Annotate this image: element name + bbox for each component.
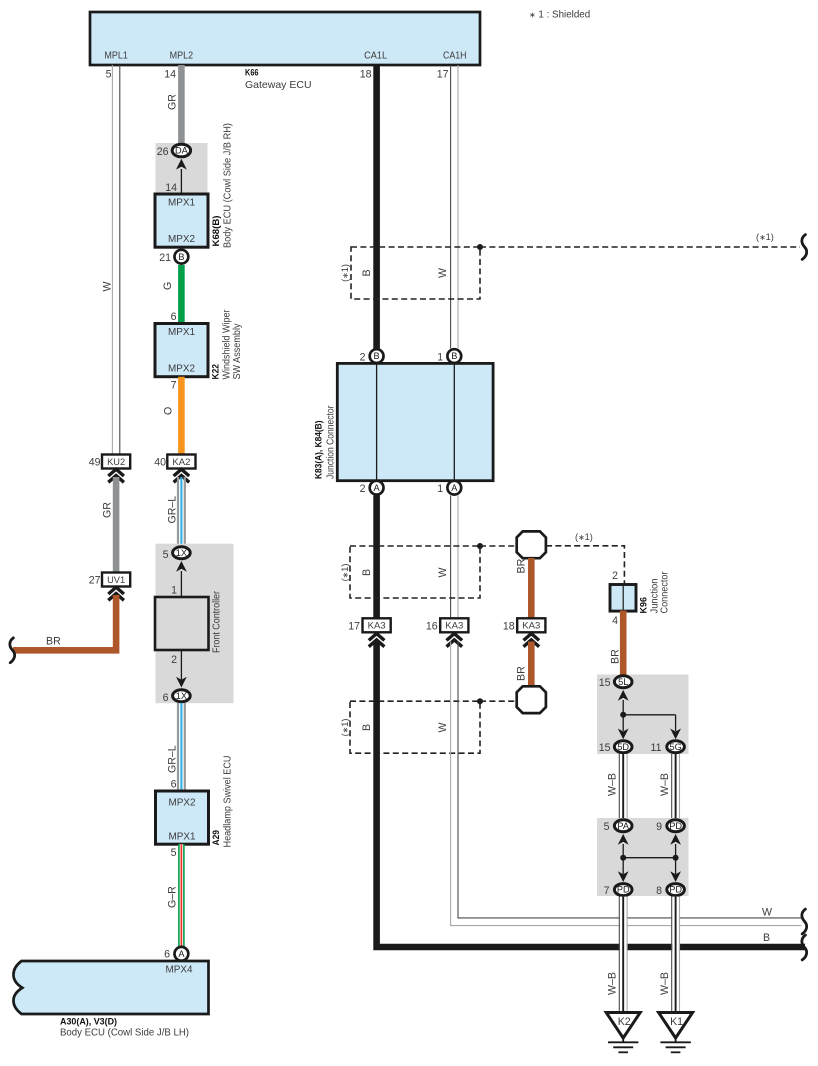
svg-text:Body ECU (Cowl Side J/B LH): Body ECU (Cowl Side J/B LH) <box>60 1027 189 1039</box>
svg-text:PA: PA <box>617 821 629 831</box>
wire 5L to junction dot <box>622 700 624 715</box>
connector UV1 pin 27 <box>102 573 130 587</box>
svg-text:2: 2 <box>360 352 366 364</box>
svg-text:KU2: KU2 <box>107 457 125 468</box>
inline connector chevron below UV1 <box>108 587 124 600</box>
connector KA3 pin 18 <box>517 618 545 632</box>
svg-text:14: 14 <box>164 69 176 81</box>
shield octagon 1 <box>517 531 546 558</box>
svg-text:1: 1 <box>437 352 443 364</box>
svg-text:GR: GR <box>167 94 179 110</box>
svg-text:O: O <box>163 407 175 415</box>
svg-text:KA3: KA3 <box>522 621 540 632</box>
wire down to 7PD <box>622 858 624 874</box>
wire inside J/B from DA to K68 <box>180 169 182 194</box>
svg-text:2: 2 <box>360 483 366 495</box>
wire down to 5D <box>622 715 624 731</box>
ground symbol K1 <box>660 1038 690 1052</box>
svg-text:B: B <box>361 724 373 731</box>
svg-text:G–R: G–R <box>167 886 179 908</box>
svg-text:CA1H: CA1H <box>443 50 467 62</box>
svg-text:21: 21 <box>159 252 171 264</box>
pin B 2 circle <box>370 349 384 363</box>
svg-text:Body ECU (Cowl Side J/B RH): Body ECU (Cowl Side J/B RH) <box>222 123 234 248</box>
svg-text:6: 6 <box>163 692 169 704</box>
svg-text:5L: 5L <box>618 677 628 687</box>
wire PD to junction dot <box>675 844 677 858</box>
wire W-B from 8PD to ground K1 <box>672 897 680 1013</box>
shield dashed box 3 <box>350 701 480 753</box>
pin A 1 circle <box>447 481 461 495</box>
svg-text:BR: BR <box>610 649 622 664</box>
svg-text:1X: 1X <box>176 548 187 558</box>
pin 5G 11 oval <box>667 741 685 753</box>
arrow into 5D <box>618 729 629 740</box>
ground triangle K1 <box>659 1013 693 1039</box>
break squiggle on W wire right <box>802 909 807 934</box>
shield junction dot 2 <box>477 543 483 549</box>
svg-text:KA2: KA2 <box>172 457 190 468</box>
svg-text:K96: K96 <box>639 597 649 614</box>
svg-text:W: W <box>762 907 772 919</box>
svg-text:17: 17 <box>437 69 449 81</box>
svg-text:MPL1: MPL1 <box>104 50 128 62</box>
pin B 21 circle <box>175 250 189 264</box>
svg-text:5: 5 <box>106 69 112 81</box>
wire GR from KU2 to UV1 <box>113 477 120 573</box>
connector KA3 pin 16 <box>440 618 468 632</box>
wire PA to junction dot <box>622 844 624 858</box>
svg-text:Headlamp Swivel ECU: Headlamp Swivel ECU <box>222 756 234 848</box>
svg-text:49: 49 <box>89 457 101 469</box>
svg-text:Connector: Connector <box>659 571 671 613</box>
svg-text:∗ 1 : Shielded: ∗ 1 : Shielded <box>529 10 590 21</box>
svg-text:(∗1): (∗1) <box>756 232 774 242</box>
break squiggle at left end of BR wire <box>10 638 15 663</box>
wire W-B from 5D to PA <box>619 754 627 819</box>
pin 5D 15 oval <box>614 741 632 753</box>
wire GR-L from front controller to A29 <box>178 703 185 791</box>
svg-text:A30(A), V3(D): A30(A), V3(D) <box>60 1017 117 1027</box>
junction dot <box>620 712 626 718</box>
svg-text:BR: BR <box>516 666 528 681</box>
svg-text:17: 17 <box>348 621 360 633</box>
svg-text:5: 5 <box>604 821 610 833</box>
connector KU2 pin 49 <box>102 455 130 469</box>
svg-text:7: 7 <box>171 380 177 392</box>
wire across to 5G branch <box>623 714 675 716</box>
svg-text:W–B: W–B <box>659 972 671 995</box>
wire O from K22 to KA2 <box>178 377 185 455</box>
pin A 6 circle <box>175 947 189 961</box>
svg-text:W: W <box>102 282 114 292</box>
pin 5L 15 oval <box>614 676 632 688</box>
arrow into 7PD <box>618 871 629 882</box>
front controller shade panel <box>156 544 234 704</box>
wire W from K83 to KA3 <box>451 496 458 619</box>
wire GR-L from KA2 to front controller <box>178 477 185 546</box>
break squiggle on B wire right <box>802 935 807 960</box>
svg-text:K22: K22 <box>211 364 221 380</box>
arrow into DA <box>176 159 187 170</box>
svg-text:40: 40 <box>154 457 166 469</box>
svg-text:KA3: KA3 <box>368 621 386 632</box>
svg-text:Gateway ECU: Gateway ECU <box>245 79 312 91</box>
ground symbol K2 <box>608 1038 638 1052</box>
svg-text:B: B <box>374 351 380 361</box>
svg-text:PD: PD <box>617 885 630 895</box>
shield dashed box 1 <box>351 247 480 299</box>
svg-text:K1: K1 <box>670 1016 683 1028</box>
svg-text:6: 6 <box>171 779 177 791</box>
wire across between dots <box>623 857 675 859</box>
svg-text:6: 6 <box>171 311 177 323</box>
svg-text:14: 14 <box>165 182 177 194</box>
svg-text:MPX1: MPX1 <box>168 197 195 209</box>
svg-text:1: 1 <box>171 585 177 597</box>
svg-text:K2: K2 <box>618 1016 631 1028</box>
ECU box A30 Body ECU Cowl Side J/B LH with torn edge <box>13 961 208 1014</box>
pin PA 5 oval <box>614 820 632 832</box>
svg-text:18: 18 <box>360 69 372 81</box>
svg-text:K68(B): K68(B) <box>211 216 221 247</box>
svg-text:8: 8 <box>656 885 662 897</box>
wire from arrow to front controller box <box>180 571 182 597</box>
svg-text:W–B: W–B <box>607 972 619 995</box>
svg-text:MPL2: MPL2 <box>170 50 194 62</box>
svg-text:MPX2: MPX2 <box>168 363 195 375</box>
svg-text:UV1: UV1 <box>107 575 125 586</box>
svg-text:B: B <box>361 569 373 576</box>
svg-text:GR–L: GR–L <box>167 745 179 773</box>
arrow into PA <box>618 834 629 845</box>
pin PD 7 oval <box>614 884 632 896</box>
arrow into 5G <box>670 729 681 740</box>
wire BR from octagon1 to KA3 <box>528 558 535 618</box>
svg-text:K83(A), K84(B): K83(A), K84(B) <box>314 421 324 480</box>
svg-text:4: 4 <box>612 615 618 627</box>
inline connector chevron below KU2 <box>108 469 124 482</box>
connector KA3 pin 17 <box>363 618 391 632</box>
svg-text:A: A <box>451 483 458 493</box>
shield dashed line to octagon 1 <box>480 545 517 547</box>
svg-text:W: W <box>437 268 449 278</box>
svg-text:Junction Connector: Junction Connector <box>325 405 337 479</box>
svg-text:MPX4: MPX4 <box>166 964 193 976</box>
svg-text:2: 2 <box>171 654 177 666</box>
svg-text:27: 27 <box>89 575 101 587</box>
svg-text:MPX1: MPX1 <box>168 326 195 338</box>
svg-text:W–B: W–B <box>607 773 619 796</box>
junction connector K96 <box>610 585 636 612</box>
inline connector chevron below KA2 <box>174 469 190 482</box>
svg-text:B: B <box>361 269 373 276</box>
pin DA 26 oval <box>172 144 190 157</box>
ECU box K22 Windshield Wiper SW Assembly <box>155 324 208 377</box>
svg-text:(∗1): (∗1) <box>340 564 350 582</box>
svg-text:BR: BR <box>46 636 61 648</box>
svg-text:18: 18 <box>503 621 515 633</box>
svg-text:CA1L: CA1L <box>364 50 387 62</box>
svg-text:11: 11 <box>651 742 662 754</box>
junction dot right <box>673 855 679 861</box>
svg-text:B: B <box>451 351 457 361</box>
ECU box K68(B) Body ECU Cowl Side J/B RH <box>155 194 208 247</box>
chevron below KA3 16 <box>447 634 463 647</box>
svg-text:A: A <box>374 483 381 493</box>
svg-text:Front Controller: Front Controller <box>211 591 223 653</box>
svg-text:BR: BR <box>516 558 528 573</box>
svg-text:PD: PD <box>669 821 682 831</box>
svg-text:DA: DA <box>175 146 189 156</box>
pin 1X 6 oval <box>173 690 191 702</box>
chevron below KA3 18 <box>524 634 540 647</box>
chevron below KA3 17 <box>369 634 385 647</box>
wire B from KA3 down and right to edge <box>377 642 805 948</box>
svg-text:5: 5 <box>163 549 169 561</box>
arrow into 8PD <box>670 871 681 882</box>
svg-text:1: 1 <box>437 483 443 495</box>
wire W from K66 pin5 to KU2 <box>112 65 119 455</box>
svg-text:GR–L: GR–L <box>167 496 179 524</box>
svg-text:(∗1): (∗1) <box>340 719 350 737</box>
arrow into 1X bottom <box>176 677 187 688</box>
connector shade panel of K68 <box>156 143 208 194</box>
pin PD 8 oval <box>667 884 685 896</box>
svg-text:G: G <box>162 282 174 290</box>
shield dashed line from octagon2 to dot <box>480 700 517 702</box>
svg-text:A29: A29 <box>211 830 221 846</box>
svg-text:MPX2: MPX2 <box>168 233 195 245</box>
junction connector box K83(A) K84(B) <box>337 363 493 480</box>
svg-text:MPX1: MPX1 <box>169 831 196 843</box>
svg-text:W: W <box>437 568 449 578</box>
wire BR from KA3 to octagon2 <box>528 642 535 687</box>
wire BR from K96 to 5L <box>620 611 627 676</box>
svg-text:26: 26 <box>157 146 169 158</box>
shield octagon 2 <box>517 686 546 713</box>
svg-text:K66: K66 <box>245 68 259 78</box>
wire from front controller to 1X bottom <box>180 650 182 684</box>
svg-text:5D: 5D <box>617 742 629 752</box>
ground triangle K2 <box>606 1013 640 1039</box>
svg-text:GR: GR <box>102 502 114 518</box>
arrow into PD <box>670 834 681 845</box>
junction dot left <box>620 855 626 861</box>
pin A 2 circle <box>370 481 384 495</box>
wire down to 5G <box>675 715 677 731</box>
svg-text:6: 6 <box>164 949 170 961</box>
svg-text:2: 2 <box>612 570 618 582</box>
internal junction wire right <box>453 364 455 480</box>
shield dashed line to right edge <box>480 246 800 248</box>
internal junction wire left <box>376 364 378 480</box>
shield junction dot 3 <box>477 698 483 704</box>
connector KA2 pin 40 <box>167 455 195 469</box>
svg-text:A: A <box>178 949 185 959</box>
wire B from K83 to KA3 <box>373 496 380 619</box>
ECU box A29 Headlamp Swivel ECU <box>156 791 209 844</box>
wire GR from K66 pin14 to DA <box>178 65 185 144</box>
front controller box <box>155 597 209 650</box>
shield junction dot 1 <box>477 244 483 250</box>
svg-text:5G: 5G <box>669 742 681 752</box>
pin PD 9 oval <box>667 820 685 832</box>
svg-text:5: 5 <box>171 847 177 859</box>
wire W from KA3 down and right to edge <box>451 642 802 926</box>
svg-text:16: 16 <box>426 621 438 633</box>
svg-text:B: B <box>178 252 184 262</box>
break squiggle at right end of shield line <box>802 235 807 260</box>
wire G from K68 to K22 <box>178 265 185 324</box>
pin 1X 5 oval <box>173 547 191 559</box>
svg-text:(∗1): (∗1) <box>575 532 593 542</box>
svg-text:1X: 1X <box>176 691 187 701</box>
wire W from K66 pin17 to K83 junction <box>451 65 458 349</box>
svg-text:KA3: KA3 <box>445 621 463 632</box>
shield dashed box 2 <box>350 546 480 598</box>
arrow into 1X top <box>176 561 187 572</box>
wire B from K66 pin18 to K83 junction <box>373 65 380 349</box>
svg-text:PD: PD <box>669 885 682 895</box>
arrow into 5L <box>618 690 629 701</box>
pin B 1 circle <box>447 349 461 363</box>
shield dashed line from octagon to K96 elbow <box>546 546 624 584</box>
wire W-B from 5G to PD <box>672 754 680 819</box>
wire down to 8PD <box>675 858 677 874</box>
svg-text:(∗1): (∗1) <box>340 264 350 282</box>
svg-text:7: 7 <box>604 885 610 897</box>
svg-text:MPX2: MPX2 <box>169 797 196 809</box>
ECU box K66 Gateway ECU <box>90 12 480 65</box>
shade panel PA PD <box>597 818 689 896</box>
wire W-B from 7PD to ground K2 <box>619 897 627 1013</box>
svg-text:SW Assembly: SW Assembly <box>231 323 243 380</box>
svg-text:B: B <box>763 932 770 944</box>
svg-text:W–B: W–B <box>659 773 671 796</box>
svg-text:15: 15 <box>599 677 611 689</box>
svg-text:15: 15 <box>599 742 611 754</box>
wire G-R from A29 to A30 <box>178 844 185 947</box>
svg-text:9: 9 <box>656 821 662 833</box>
shade panel 5L 5D 5G <box>597 675 689 755</box>
svg-text:W: W <box>437 723 449 733</box>
wire BR elbow to left edge <box>13 595 116 650</box>
